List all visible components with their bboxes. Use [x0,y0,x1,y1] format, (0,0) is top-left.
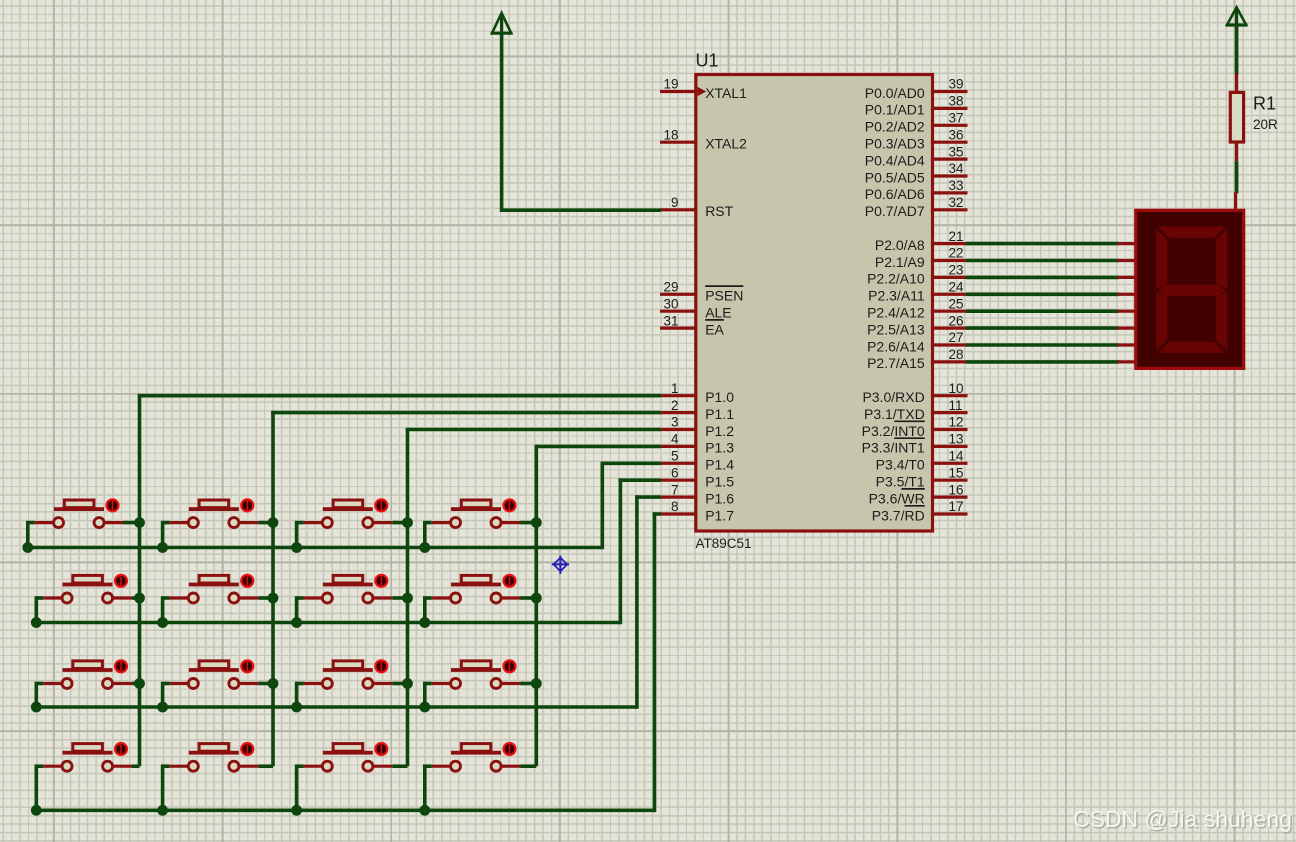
wire P2.3 to display [966,292,1119,296]
label R1 reference [1253,94,1276,114]
pin 27 P2.6/A14 (right) [867,330,967,354]
svg-text:P1.0: P1.0 [705,389,734,405]
pin 32 P0.7/AD7 (right) [865,195,968,219]
svg-text:P3.2/INT0: P3.2/INT0 [862,423,925,439]
pin 11 P3.1/TXD (right) [864,398,968,422]
svg-text:P2.2/A10: P2.2/A10 [867,271,925,287]
display top pin [1234,192,1237,212]
wire column 3 vertical [406,428,410,767]
pin 13 P3.3/INT1 (right) [862,432,968,456]
wire column 1 vertical [138,394,142,766]
pin 9 RST (left) [660,195,734,219]
svg-text:29: 29 [663,280,678,295]
svg-text:39: 39 [949,77,964,92]
pin 17 P3.7/RD (right) [872,499,968,523]
pin 2 P1.1 (left) [660,398,734,422]
junction row4 drop col4 [419,805,430,816]
svg-text:P2.0/A8: P2.0/A8 [875,237,925,253]
power symbol (R1 net, top right) [1226,7,1248,25]
wire P1.4 vertical to row 1 [600,462,604,550]
svg-text:32: 32 [949,195,964,210]
svg-text:35: 35 [949,144,964,159]
svg-text:P0.1/AD1: P0.1/AD1 [865,102,925,118]
junction row4 drop col2 [157,805,168,816]
resistor R1 top pin [1235,74,1238,93]
pin 21 P2.0/A8 (right) [875,229,968,253]
pin 7 P1.6 (left) [660,482,734,506]
svg-text:P3.0/RXD: P3.0/RXD [862,389,924,405]
svg-text:34: 34 [949,161,965,176]
display pin segment d [1117,293,1137,296]
push button row2 col1 [36,575,139,623]
push button row3 col2 [163,660,273,707]
push button row1 col1 [28,499,140,547]
svg-text:P0.7/AD7: P0.7/AD7 [865,203,925,219]
junction row1 drop col4 [419,542,430,553]
pin 1 P1.0 (left) [660,381,734,405]
pin 29 PSEN (left) [660,280,743,304]
wire P2.1 to display [966,259,1119,263]
push button row3 col1 [36,660,139,707]
junction column 3 row 3 [402,678,413,689]
pin 8 P1.7 (left) [660,499,734,523]
segment d [1158,342,1225,353]
pin 36 P0.3/AD3 (right) [865,127,968,151]
junction row3 drop col4 [419,702,430,713]
junction column 2 row 2 [268,593,279,604]
label U1 reference [696,51,719,71]
wire P2.4 to display [966,309,1119,313]
svg-text:12: 12 [949,415,964,430]
junction row4 drop col1 [31,805,42,816]
wire power to R1 [1235,25,1239,75]
junction column 2 row 3 [268,678,279,689]
push button row2 col4 [425,575,537,623]
svg-text:26: 26 [949,313,964,328]
pin 28 P2.7/A15 (right) [867,347,967,371]
display pin segment f [1117,327,1137,330]
svg-text:XTAL2: XTAL2 [705,136,747,152]
wire R1 to display [1235,161,1239,193]
svg-text:7: 7 [671,482,679,497]
resistor R1 body [1230,92,1243,142]
junction row2 drop col4 [419,617,430,628]
wire P1.7 vertical to row 4 [653,512,657,812]
push button row4 col2 [163,743,273,810]
svg-text:2: 2 [671,398,679,413]
wire P1.1 to column 2 [271,411,661,415]
pin 34 P0.5/AD5 (right) [865,161,968,185]
wire P1.3 to column 4 [535,445,662,449]
pin 39 P0.0/AD0 (right) [865,77,968,101]
pin 14 P3.4/T0 (right) [876,449,968,473]
wire P1.6 vertical to row 3 [635,495,639,709]
svg-text:P0.0/AD0: P0.0/AD0 [865,85,925,101]
svg-text:P1.5: P1.5 [705,474,734,490]
wire P2.6 to display [966,343,1119,347]
push button row1 col4 [425,499,537,547]
wire row 1 bus [26,546,602,550]
push button row2 col3 [297,575,408,623]
svg-text:P0.5/AD5: P0.5/AD5 [865,169,925,185]
push button row4 col3 [297,743,408,810]
pin 23 P2.2/A10 (right) [867,263,967,287]
pin 15 P3.5/T1 (right) [876,465,968,489]
watermark text [1073,806,1293,834]
svg-text:25: 25 [949,296,964,311]
power symbol (RST net, top left) [491,13,513,33]
wire row 4 bus [35,808,655,812]
svg-text:P0.4/AD4: P0.4/AD4 [865,152,925,168]
push button row2 col2 [163,575,273,623]
junction column 3 row 1 [402,517,413,528]
svg-text:38: 38 [949,94,964,109]
wire row 3 bus [35,705,637,709]
svg-text:30: 30 [663,296,678,311]
junction row3 drop col3 [291,702,302,713]
svg-text:P2.3/A11: P2.3/A11 [868,288,925,304]
IC U1 AT89C51 body [696,75,933,532]
wire P1.0 to column 1 [138,394,661,398]
display pin segment c [1117,276,1137,279]
svg-text:P2.7/A15: P2.7/A15 [867,355,925,371]
svg-text:CSDN @Jia shuheng: CSDN @Jia shuheng [1073,806,1292,832]
svg-text:10: 10 [949,381,964,396]
wire column 4 vertical [534,445,538,767]
segment e [1156,292,1167,351]
segment g [1158,285,1225,296]
wire column 2 vertical [271,411,275,766]
wire P2.7 to display [966,360,1119,364]
push button row3 col3 [297,660,408,707]
svg-text:3: 3 [671,415,679,430]
wire P2.5 to display [966,326,1119,330]
svg-text:P3.4/T0: P3.4/T0 [876,457,925,473]
display pin segment a [1117,242,1137,245]
svg-text:P1.3: P1.3 [705,440,734,456]
pin 16 P3.6/WR (right) [869,482,968,506]
junction row1 drop col2 [157,542,168,553]
push button row4 col1 [36,743,139,810]
svg-text:ALE: ALE [705,305,731,321]
svg-text:16: 16 [949,482,964,497]
pin 37 P0.2/AD2 (right) [865,111,968,135]
svg-text:P3.3/INT1: P3.3/INT1 [862,440,925,456]
wire P1.2 to column 3 [406,428,661,432]
junction column 1 row 2 [134,593,145,604]
wire row 2 bus [35,621,621,625]
svg-text:U1: U1 [696,51,719,71]
svg-text:21: 21 [949,229,964,244]
junction column 1 row 1 [134,517,145,528]
segment f [1156,229,1167,289]
origin marker [552,556,569,574]
label AT89C51 value [696,536,752,551]
junction row1 drop col3 [291,542,302,553]
display pin segment g [1117,343,1137,346]
pin 24 P2.3/A11 (right) [868,280,967,304]
wire RST horizontal [500,208,661,212]
junction column 4 row 3 [531,678,542,689]
pin 3 P1.2 (left) [660,415,734,439]
wire P1.6 horizontal [635,495,661,499]
svg-text:P3.7/RD: P3.7/RD [872,507,925,523]
pin 4 P1.3 (left) [660,432,734,456]
push button row1 col3 [297,499,408,547]
junction row2 drop col1 [31,617,42,628]
pin 33 P0.6/AD6 (right) [865,178,968,202]
svg-text:P2.6/A14: P2.6/A14 [867,338,925,354]
pin 18 XTAL2 (left) [660,127,747,151]
junction row2 drop col2 [157,617,168,628]
svg-text:P3.1/TXD: P3.1/TXD [864,406,925,422]
wire P2.0 to display [966,242,1119,246]
svg-text:17: 17 [949,499,964,514]
svg-text:RST: RST [705,203,733,219]
svg-text:5: 5 [671,449,679,464]
svg-text:20R: 20R [1253,117,1278,132]
pin 6 P1.5 (left) [660,465,734,489]
segment c [1216,292,1227,351]
pin 12 P3.2/INT0 (right) [862,415,968,439]
svg-text:8: 8 [671,499,679,514]
svg-text:P0.2/AD2: P0.2/AD2 [865,119,925,135]
svg-text:P3.6/WR: P3.6/WR [869,490,925,506]
resistor R1 bottom pin [1235,141,1238,161]
pin 5 P1.4 (left) [660,449,734,473]
svg-text:27: 27 [949,330,964,345]
push button row3 col4 [425,660,537,707]
junction column 1 row 3 [134,678,145,689]
svg-text:P1.7: P1.7 [705,507,734,523]
display pin segment b [1117,259,1137,262]
label 20R value [1253,117,1278,132]
svg-text:14: 14 [949,449,965,464]
svg-text:P2.4/A12: P2.4/A12 [867,305,925,321]
wire P1.5 horizontal [619,478,661,482]
svg-text:P0.3/AD3: P0.3/AD3 [865,136,925,152]
wire P2.2 to display [966,276,1119,280]
svg-text:P2.5/A13: P2.5/A13 [867,321,925,337]
pin 26 P2.5/A13 (right) [867,313,967,337]
segment b [1216,229,1227,289]
svg-text:13: 13 [949,432,964,447]
svg-text:11: 11 [949,398,963,413]
svg-text:P1.1: P1.1 [705,406,734,422]
junction column 2 row 1 [268,517,279,528]
push button row1 col2 [163,499,273,547]
junction row2 drop col3 [291,617,302,628]
pin 22 P2.1/A9 (right) [875,246,968,270]
7-segment display body [1136,210,1244,368]
push button row4 col4 [425,743,537,810]
segment a [1158,227,1225,238]
svg-text:1: 1 [671,381,679,396]
wire power to RST vertical [500,33,504,210]
pin 25 P2.4/A12 (right) [867,296,967,320]
svg-text:XTAL1: XTAL1 [705,85,747,101]
svg-text:P3.5/T1: P3.5/T1 [876,474,925,490]
svg-text:24: 24 [949,280,965,295]
svg-text:P0.6/AD6: P0.6/AD6 [865,186,925,202]
svg-text:22: 22 [949,246,964,261]
junction row4 drop col3 [291,805,302,816]
svg-text:9: 9 [671,195,679,210]
pin 38 P0.1/AD1 (right) [865,94,968,118]
junction column 3 row 2 [402,593,413,604]
svg-text:R1: R1 [1253,94,1276,114]
pin 30 ALE (left) [660,296,732,320]
pin 31 EA (left) [660,313,725,337]
svg-text:36: 36 [949,127,964,142]
junction row3 drop col2 [157,702,168,713]
pin 19 XTAL1 (left) [660,77,747,101]
wire P1.5 vertical to row 2 [619,478,623,624]
display pin segment h [1117,360,1137,363]
svg-text:6: 6 [671,465,679,480]
junction column 4 row 2 [531,593,542,604]
junction column 4 row 1 [531,517,542,528]
svg-text:19: 19 [663,77,678,92]
svg-text:P1.2: P1.2 [705,423,734,439]
wire P1.4 horizontal [601,461,662,465]
svg-text:15: 15 [949,465,964,480]
svg-text:23: 23 [949,263,964,278]
pin 10 P3.0/RXD (right) [862,381,967,405]
svg-text:33: 33 [949,178,964,193]
junction row3 drop col1 [31,702,42,713]
svg-text:P1.4: P1.4 [705,457,734,473]
svg-text:18: 18 [663,127,678,142]
display pin segment e [1117,310,1137,313]
svg-text:31: 31 [663,313,678,328]
svg-text:AT89C51: AT89C51 [696,536,752,551]
wire P1.7 horizontal [653,512,661,516]
svg-text:P1.6: P1.6 [705,490,734,506]
pin 35 P0.4/AD4 (right) [865,144,968,168]
svg-text:37: 37 [949,111,964,126]
svg-text:PSEN: PSEN [705,288,743,304]
junction row1 drop col1 [22,542,33,553]
svg-text:P2.1/A9: P2.1/A9 [875,254,925,270]
svg-text:28: 28 [949,347,964,362]
svg-text:4: 4 [671,432,679,447]
svg-text:EA: EA [705,321,724,337]
